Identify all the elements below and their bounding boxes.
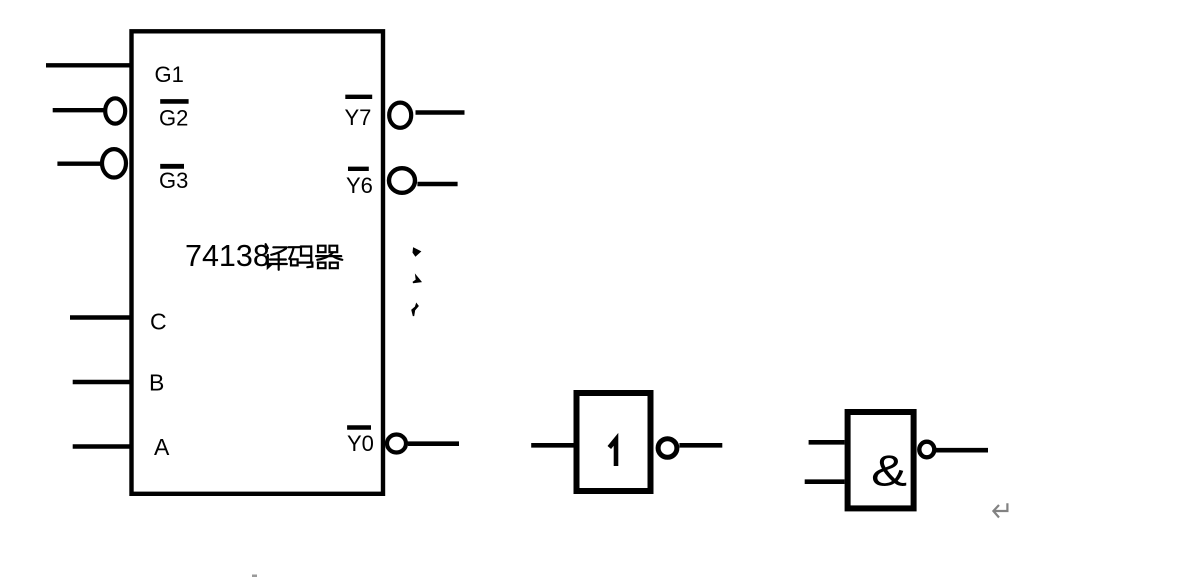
pin A label [154,434,170,460]
inverter gate U2 label 1 [609,439,616,466]
svg-text:B: B [149,370,164,396]
pin A wire [73,444,133,448]
device label hanzi YI (译) drawn [266,244,287,270]
svg-text:&: & [871,446,907,495]
pin G1 wire [46,63,131,67]
pin G2 wire [53,108,105,112]
output Y7 wire [416,110,465,115]
paragraph return mark [993,503,1007,517]
svg-text:Y6: Y6 [346,173,373,198]
inverter input wire [531,443,573,448]
pin B wire [73,380,131,384]
output Y0 label with overline [347,428,374,457]
NAND output bubble [919,442,934,458]
NAND input wire 2 [805,479,845,484]
decoder U1 74138 box [132,31,384,494]
pin G2 label with overline [159,101,189,130]
ellipsis dot 2 [413,276,421,283]
NAND gate U3 label & [871,446,907,495]
device label hanzi MA (码) drawn [289,247,313,268]
pin G3 wire [57,161,102,165]
svg-text:G2: G2 [159,106,188,131]
NAND gate U3 box [848,412,914,508]
output Y7 label with overline [345,97,373,130]
output Y6 wire [417,182,457,186]
svg-text:Y0: Y0 [347,431,374,456]
NAND input wire 1 [809,440,845,445]
pin C wire [70,315,131,319]
pin G3 inversion bubble [102,149,126,177]
output Y6 label with overline [346,169,373,198]
output Y0 inversion bubble [387,435,406,453]
svg-text:G3: G3 [159,168,188,193]
NAND output wire [936,448,988,453]
svg-text:G1: G1 [155,62,184,87]
inverter output wire [679,443,722,448]
ellipsis dot 1 [413,248,421,256]
device label 74138 [185,239,270,273]
pin G2 inversion bubble [105,98,125,123]
output Y0 wire [408,441,459,446]
speck at bottom edge [252,575,257,577]
svg-text:74138: 74138 [185,239,270,273]
device label hanzi QI (器) drawn [316,246,342,269]
svg-text:C: C [150,309,167,335]
output Y6 inversion bubble [389,168,415,193]
output Y7 inversion bubble [389,103,411,128]
svg-text:A: A [154,434,170,460]
inverter gate U2 box [577,393,651,491]
pin C label [150,309,167,335]
inverter output bubble [658,439,677,458]
pin G3 label with overline [159,166,188,193]
pin B label [149,370,164,396]
ellipsis dot 3 [412,304,418,316]
pin G1 label [155,62,184,87]
svg-text:Y7: Y7 [345,105,372,130]
